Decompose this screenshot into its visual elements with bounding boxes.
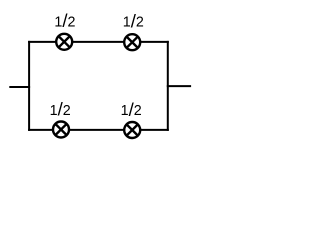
svg-text:1/2: 1/2 bbox=[123, 10, 144, 31]
wire: left terminal lead bbox=[9, 86, 30, 88]
wire: right vertical bus bbox=[167, 41, 169, 131]
svg-text:1/2: 1/2 bbox=[121, 99, 142, 120]
wire: bottom branch horizontal bbox=[28, 129, 169, 131]
wire: top branch horizontal bbox=[28, 41, 169, 43]
lamp element top-left (1/2) bbox=[56, 34, 72, 50]
wire: left vertical bus bbox=[28, 41, 30, 131]
wire: right terminal lead bbox=[167, 85, 191, 87]
svg-text:1/2: 1/2 bbox=[50, 99, 71, 120]
lamp element bottom-left (1/2) bbox=[53, 122, 69, 138]
lamp element bottom-right (1/2) bbox=[124, 122, 140, 138]
svg-text:1/2: 1/2 bbox=[54, 10, 75, 31]
lamp element top-right (1/2) bbox=[124, 34, 140, 50]
